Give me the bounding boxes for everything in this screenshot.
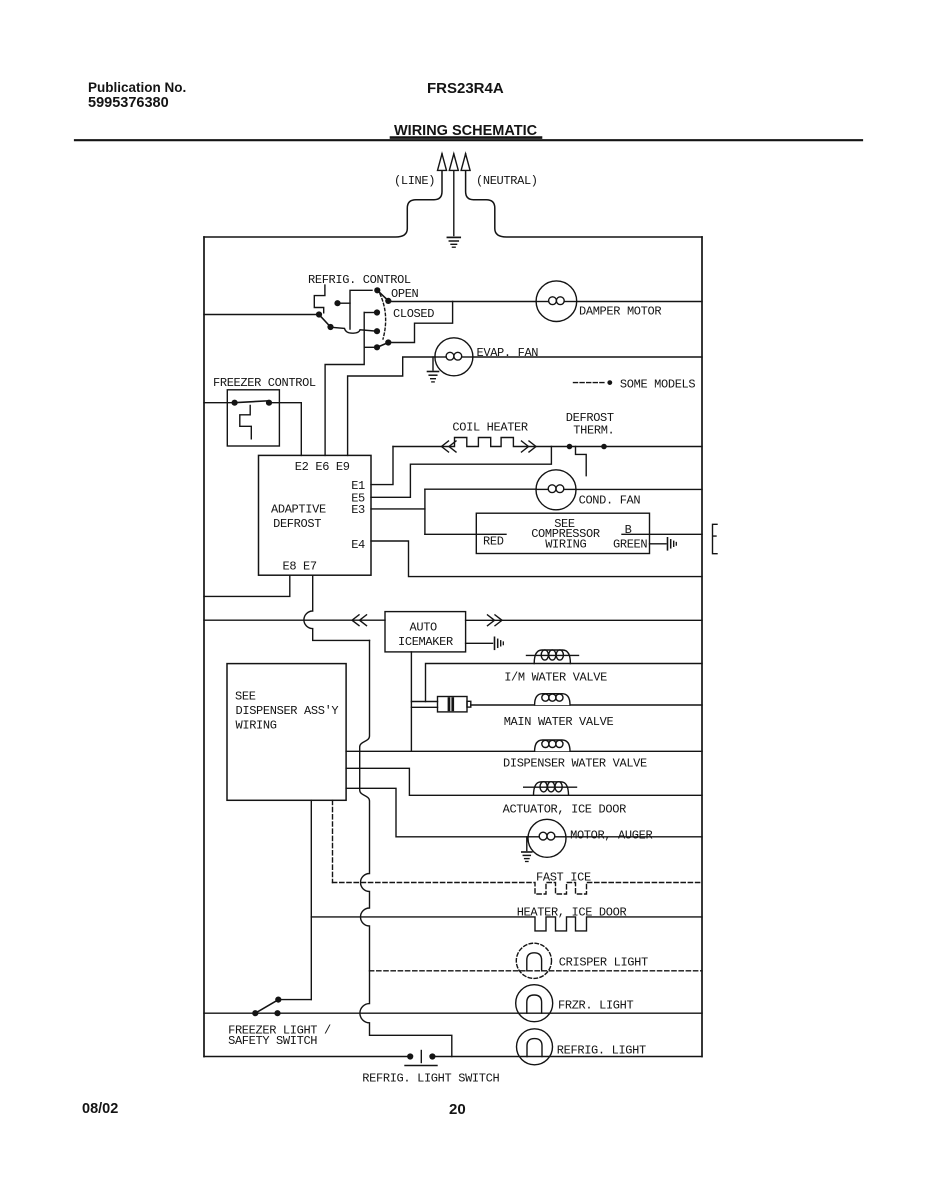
svg-text:ICEMAKER: ICEMAKER xyxy=(398,635,453,649)
enclosure left border xyxy=(203,237,205,1057)
refrig light bulb circle xyxy=(517,1029,553,1065)
svg-text:REFRIG. LIGHT SWITCH: REFRIG. LIGHT SWITCH xyxy=(362,1072,499,1086)
svg-text:THERM.: THERM. xyxy=(573,424,614,438)
wire connector lower pin xyxy=(411,706,437,708)
dispenser water valve coil L3 xyxy=(535,740,570,751)
wire E1 to coil heater line xyxy=(371,447,393,485)
auto icemaker box U2 xyxy=(385,612,466,652)
svg-text:RED: RED xyxy=(483,535,504,549)
svg-text:AUTO: AUTO xyxy=(410,621,438,635)
wire im valve line xyxy=(426,664,703,702)
svg-text:EVAP. FAN: EVAP. FAN xyxy=(477,346,539,360)
wire D to switch column xyxy=(338,302,351,304)
svg-text:SEE: SEE xyxy=(235,690,256,704)
supply ground wire xyxy=(453,154,455,236)
wire auger motor to right border xyxy=(566,836,702,838)
wire B to right border xyxy=(622,533,702,535)
freezer control thermostat step xyxy=(240,405,252,438)
cond fan coil loops xyxy=(537,485,576,493)
frzr light filament xyxy=(527,995,542,1013)
wire border to icemaker xyxy=(204,619,385,621)
wire E4 to right border xyxy=(371,541,702,577)
wire red to compressor box xyxy=(425,533,506,535)
supply ground symbol xyxy=(447,237,460,247)
svg-text:DAMPER MOTOR: DAMPER MOTOR xyxy=(579,305,661,319)
compressor box xyxy=(476,513,649,553)
svg-text:COIL HEATER: COIL HEATER xyxy=(452,421,528,435)
motor auger circle M4 xyxy=(528,819,566,857)
cond fan circle M3 xyxy=(536,470,576,510)
evap fan circle M2 xyxy=(435,338,473,376)
wire I up to damper line xyxy=(388,302,452,343)
wire heater ice door line xyxy=(311,917,702,931)
supply arrowhead line xyxy=(438,154,447,171)
svg-text:(LINE): (LINE) xyxy=(394,174,435,188)
damper motor circle M1 xyxy=(536,281,577,322)
icemaker chassis ground stub xyxy=(466,642,493,644)
svg-text:E4: E4 xyxy=(351,538,365,552)
wire B to C xyxy=(331,327,378,333)
icemaker chevrons right xyxy=(488,615,503,626)
svg-text:FRZR. LIGHT: FRZR. LIGHT xyxy=(558,999,634,1013)
refrig control column wire xyxy=(350,290,372,329)
wire border to refrig control common xyxy=(204,314,319,316)
header publication number xyxy=(88,80,186,111)
dispenser box bottom column xyxy=(310,800,312,999)
evap fan ground symbol xyxy=(428,372,439,382)
wire fast ice dashed feed xyxy=(332,800,334,882)
green chassis ground rotated xyxy=(668,538,677,550)
svg-text:MOTOR, AUGER: MOTOR, AUGER xyxy=(570,829,652,843)
wire connector upper pin xyxy=(411,701,437,703)
wire freezer light line xyxy=(204,1012,702,1014)
evap fan coil loops xyxy=(436,352,473,360)
supply arrowhead neutral xyxy=(461,154,470,171)
freezer control box xyxy=(227,390,279,446)
svg-text:(NEUTRAL): (NEUTRAL) xyxy=(476,174,538,188)
icemaker output column xyxy=(410,652,412,751)
title rule xyxy=(75,139,862,141)
node E open contact xyxy=(374,287,380,293)
svg-text:ADAPTIVE: ADAPTIVE xyxy=(271,503,326,517)
svg-text:08/02: 08/02 xyxy=(82,1101,118,1117)
defrost thermostat sensing step xyxy=(576,447,587,476)
wire auger motor line xyxy=(346,788,528,837)
wire cond fan to right border xyxy=(576,488,702,490)
wire main valve line xyxy=(471,704,702,706)
node defrost thermostat left xyxy=(567,444,573,450)
wire G left xyxy=(364,312,377,314)
wire E9 column to evap fan xyxy=(348,357,436,455)
svg-text:WIRING: WIRING xyxy=(545,538,586,552)
valve connector plug xyxy=(438,697,471,712)
wire border to freezer control xyxy=(204,402,235,404)
enclosure top border with supply arch right xyxy=(466,154,702,237)
svg-text:DEFROST: DEFROST xyxy=(273,517,321,531)
svg-text:COND. FAN: COND. FAN xyxy=(579,494,641,508)
actuator ice door coil L4 xyxy=(524,782,577,796)
wire actuator line xyxy=(346,768,702,795)
refrig light filament xyxy=(527,1039,542,1057)
evap fan ground stem xyxy=(432,357,434,370)
wire crisper dashed line xyxy=(370,970,703,972)
wire E8 to left border xyxy=(204,575,290,596)
motor auger ground stem xyxy=(526,837,528,851)
node D xyxy=(334,300,340,306)
svg-text:REFRIG. LIGHT: REFRIG. LIGHT xyxy=(557,1044,646,1058)
wire closed-contact column xyxy=(325,313,364,456)
freezer switch blade xyxy=(255,1001,276,1014)
wire evap fan to right border xyxy=(473,356,702,358)
wire open contact to damper motor xyxy=(388,301,536,303)
node freezer switch upper xyxy=(275,997,281,1003)
wire E5 riser to heater line xyxy=(371,447,551,498)
svg-text:E8 E7: E8 E7 xyxy=(283,560,317,574)
svg-text:SAFETY SWITCH: SAFETY SWITCH xyxy=(228,1034,317,1048)
refrig control blade E-F open xyxy=(377,290,388,300)
main water valve coil L2 xyxy=(535,694,570,705)
svg-text:REFRIG. CONTROL: REFRIG. CONTROL xyxy=(308,273,411,287)
svg-text:CLOSED: CLOSED xyxy=(393,307,434,321)
coil heater chevrons left xyxy=(442,441,457,452)
wire E7 long vertical with hops xyxy=(360,640,452,1056)
svg-text:MAIN WATER VALVE: MAIN WATER VALVE xyxy=(504,715,614,729)
crisper light bulb dashed circle xyxy=(516,943,551,978)
node freezer switch right xyxy=(274,1010,280,1016)
cond fan junction column xyxy=(424,489,426,534)
svg-text:DISPENSER WATER VALVE: DISPENSER WATER VALVE xyxy=(503,757,647,771)
wire damper motor to right border xyxy=(577,301,702,303)
refrig control gang dashed arc xyxy=(380,294,386,339)
svg-text:5995376380: 5995376380 xyxy=(88,95,169,111)
wire upper contact to column xyxy=(278,999,311,1001)
wire icemaker to right border xyxy=(466,619,702,621)
damper motor coil loops xyxy=(537,297,576,305)
svg-text:SOME MODELS: SOME MODELS xyxy=(620,378,696,392)
refrig light switch plunger xyxy=(405,1051,437,1066)
svg-text:HEATER, ICE DOOR: HEATER, ICE DOOR xyxy=(517,906,627,920)
im water valve coil L1 xyxy=(527,650,579,664)
svg-text:E2 E6 E9: E2 E6 E9 xyxy=(295,460,350,474)
legend dot xyxy=(607,380,612,385)
svg-text:FREEZER CONTROL: FREEZER CONTROL xyxy=(213,376,316,390)
refrig control blade A-B xyxy=(319,315,331,327)
refrig control actuator jog xyxy=(314,285,325,313)
icemaker chevrons left xyxy=(352,615,367,626)
node G closed contact xyxy=(374,309,380,315)
legend dashed sample xyxy=(574,382,606,384)
svg-text:20: 20 xyxy=(449,1101,466,1118)
svg-text:ACTUATOR, ICE DOOR: ACTUATOR, ICE DOOR xyxy=(503,803,626,817)
node defrost thermostat right xyxy=(601,444,607,450)
node C xyxy=(374,328,380,334)
node I xyxy=(385,339,391,345)
wire E3 to junction column xyxy=(371,508,425,510)
enclosure right border xyxy=(701,237,703,1057)
icemaker chassis ground rotated xyxy=(495,637,504,649)
svg-text:DISPENSER ASS'Y: DISPENSER ASS'Y xyxy=(236,704,339,718)
wire green to chassis ground xyxy=(650,543,667,545)
node F xyxy=(385,298,391,304)
svg-text:I/M WATER VALVE: I/M WATER VALVE xyxy=(504,671,607,685)
node freezer switch left xyxy=(252,1010,258,1016)
motor auger ground symbol xyxy=(522,852,532,862)
wire H left xyxy=(364,346,377,348)
enclosure top border with supply arch left xyxy=(204,154,442,237)
node refrig switch right xyxy=(429,1053,435,1059)
node refrig control common A xyxy=(316,311,322,317)
node freezer control right xyxy=(266,400,272,406)
svg-text:WIRING: WIRING xyxy=(236,719,277,733)
svg-text:E3: E3 xyxy=(351,503,365,517)
connector bracket right of border xyxy=(713,524,718,553)
node B xyxy=(327,324,333,330)
node freezer control left xyxy=(232,400,238,406)
supply arrowhead ground xyxy=(449,154,458,171)
adaptive defrost box U1 xyxy=(259,455,372,575)
enclosure bottom border refrig light line xyxy=(204,1056,410,1058)
svg-text:Publication No.: Publication No. xyxy=(88,80,186,95)
wire E7 from box to icemaker line corner xyxy=(304,575,370,640)
svg-text:GREEN: GREEN xyxy=(613,538,647,552)
svg-text:FRS23R4A: FRS23R4A xyxy=(427,80,504,97)
motor auger coil loops xyxy=(529,832,566,840)
wire freezer control to E2 xyxy=(269,403,301,456)
crisper light filament xyxy=(527,953,542,971)
dispenser assy box xyxy=(227,664,346,801)
wire dispenser valve line xyxy=(346,750,702,752)
coil heater chevrons right xyxy=(522,441,537,452)
coil heater line with element xyxy=(393,438,702,447)
svg-text:FAST ICE: FAST ICE xyxy=(536,871,591,885)
wire to cond fan xyxy=(425,488,536,490)
refrig control blade H-I xyxy=(377,343,388,348)
svg-text:CRISPER LIGHT: CRISPER LIGHT xyxy=(559,956,648,970)
frzr light bulb circle xyxy=(516,985,553,1022)
wire fast ice dashed line xyxy=(333,883,703,895)
node H xyxy=(374,344,380,350)
svg-text:OPEN: OPEN xyxy=(391,287,419,301)
freezer control blade xyxy=(235,401,269,403)
node refrig switch left xyxy=(407,1053,413,1059)
